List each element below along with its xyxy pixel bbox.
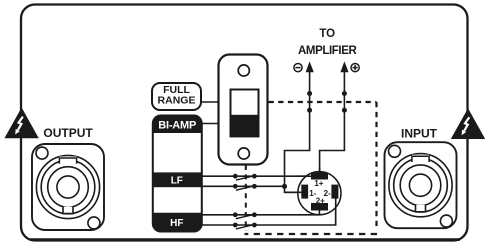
svg-text:2+: 2+ <box>316 197 325 206</box>
svg-text:OUTPUT: OUTPUT <box>43 126 93 140</box>
svg-text:RANGE: RANGE <box>158 94 196 106</box>
svg-text:TO: TO <box>319 28 335 40</box>
svg-text:1+: 1+ <box>314 179 323 188</box>
svg-text:BI-AMP: BI-AMP <box>158 119 196 131</box>
svg-text:INPUT: INPUT <box>401 126 438 140</box>
svg-text:AMPLIFIER: AMPLIFIER <box>298 45 357 57</box>
svg-text:LF: LF <box>171 176 183 187</box>
svg-text:HF: HF <box>170 218 183 229</box>
